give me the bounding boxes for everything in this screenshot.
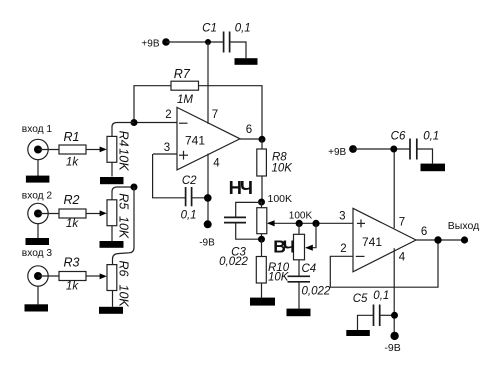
capacitor C5 (353, 290, 395, 326)
node junction pin7 column U2 (390, 146, 397, 153)
svg-text:3: 3 (164, 142, 170, 154)
potentiometer R4 (107, 123, 134, 177)
svg-text:вход 3: вход 3 (22, 248, 53, 259)
svg-text:ВЧ: ВЧ (273, 236, 294, 256)
pin 4 U1 (208, 154, 220, 225)
svg-text:6: 6 (246, 124, 252, 136)
svg-text:0,1: 0,1 (235, 22, 251, 34)
wire input2 to R2 (38, 213, 59, 215)
svg-text:0,022: 0,022 (219, 256, 248, 268)
capacitor C1 (202, 22, 251, 52)
wire input3 to R3 (38, 275, 59, 277)
wire R3 to pot R6 with arrow (86, 273, 107, 279)
svg-text:R7: R7 (174, 67, 191, 81)
node top of bass pot (258, 199, 265, 206)
wire feedback U2 pin2 loop (330, 240, 438, 287)
svg-text:6: 6 (421, 226, 427, 238)
wire C1 to ground (230, 42, 246, 58)
svg-text:7: 7 (399, 216, 405, 228)
connector input 3 (28, 266, 48, 286)
svg-text:7: 7 (212, 109, 218, 121)
svg-text:100K: 100K (268, 193, 293, 205)
svg-text:+9В: +9В (328, 147, 346, 158)
op-amp U2 (353, 208, 416, 271)
svg-text:R3: R3 (64, 255, 80, 269)
svg-text:10K: 10K (272, 163, 294, 175)
pin 3 U1 (153, 142, 177, 154)
node bus junction pin2 (131, 119, 138, 126)
svg-text:НЧ: НЧ (229, 177, 252, 198)
ground (input 1) (26, 176, 50, 183)
wire C6 to ground (417, 149, 433, 164)
wiper bass pot with arrow (267, 220, 353, 226)
ground (R10) (250, 298, 275, 306)
node C5 junction (391, 312, 398, 319)
ground (R5) (100, 241, 124, 248)
wire R2 to pot R5 with arrow (86, 210, 107, 216)
svg-text:0,022: 0,022 (302, 286, 331, 298)
svg-text:741: 741 (362, 235, 382, 249)
wire input3 to ground (37, 286, 39, 305)
node C2 junction (204, 194, 212, 202)
capacitor C4 (288, 260, 331, 309)
connector input 2 (28, 203, 48, 223)
node treble wiper column (312, 220, 319, 227)
svg-text:0,1: 0,1 (373, 290, 389, 302)
node output terminal (448, 220, 479, 244)
resistor R10 (256, 239, 289, 297)
capacitor C6 (391, 130, 440, 159)
svg-text:741: 741 (185, 134, 205, 148)
node junction pin7 column U1 (205, 39, 211, 45)
svg-text:Выход: Выход (448, 220, 479, 232)
svg-text:C6: C6 (391, 130, 406, 142)
resistor R8 (257, 139, 293, 202)
svg-text:R6: R6 (117, 261, 131, 277)
wire input1 to R1 (38, 149, 59, 151)
node output U1 (259, 136, 266, 143)
svg-text:0,1: 0,1 (423, 130, 439, 142)
ground (C6) (421, 164, 446, 172)
node -9V terminal U2 (384, 332, 400, 355)
potentiometer treble 100K (294, 223, 305, 259)
ground (input 3) (25, 304, 49, 311)
resistor R7 (171, 67, 199, 106)
resistor R2 (59, 193, 86, 230)
ground (input 2) (26, 238, 50, 245)
ground (R4) (100, 177, 124, 184)
resistor R1 (59, 130, 86, 169)
ground (C1) (235, 58, 258, 65)
node output junction U2 (434, 236, 441, 243)
wire +9V to C6 (353, 148, 410, 150)
svg-text:R8: R8 (272, 151, 287, 163)
svg-text:100K: 100K (289, 211, 313, 222)
wire +9V rail to C1 (166, 41, 223, 43)
svg-text:10K: 10K (268, 272, 290, 284)
node +9V terminal (right supply) (328, 145, 357, 158)
wire input2 to ground (37, 223, 39, 239)
svg-text:вход 2: вход 2 (22, 191, 53, 202)
svg-text:C5: C5 (353, 293, 368, 305)
svg-text:1k: 1k (66, 156, 79, 168)
node -9V terminal U1 (199, 220, 215, 248)
svg-text:R2: R2 (64, 193, 80, 207)
pin 2 U1 (134, 109, 177, 123)
svg-text:10K: 10K (117, 216, 131, 239)
pin 4 U2 (394, 248, 405, 336)
capacitor C2 (181, 175, 198, 221)
pin 7 U2 (394, 149, 405, 228)
node +9V terminal (left supply) (141, 38, 169, 49)
wire bus to R6 (113, 187, 135, 265)
wire R7 right leg to output node (199, 86, 263, 139)
connector input 1 (28, 139, 48, 159)
ground (R6) (99, 307, 123, 314)
wiper treble pot with arrow (305, 223, 316, 250)
resistor R3 (59, 255, 86, 292)
node bottom of bass pot (258, 236, 265, 243)
pin 6 U2 output wire (416, 226, 465, 240)
ground (C5) (346, 330, 370, 336)
svg-text:0,1: 0,1 (181, 209, 197, 221)
svg-text:-9В: -9В (384, 342, 400, 354)
svg-text:10K: 10K (117, 148, 131, 171)
node treble pot top (296, 220, 303, 227)
capacitor C3 across bass pot (219, 202, 261, 268)
svg-text:R4: R4 (117, 131, 131, 147)
svg-text:1k: 1k (66, 281, 79, 293)
svg-text:C2: C2 (182, 175, 197, 187)
wire C5 to ground (358, 315, 374, 330)
svg-text:2: 2 (340, 243, 346, 255)
svg-text:вход 1: вход 1 (22, 124, 53, 135)
svg-text:-9В: -9В (199, 238, 215, 249)
svg-text:3: 3 (339, 211, 345, 223)
op-amp U1 (177, 107, 240, 169)
svg-text:R5: R5 (117, 193, 131, 209)
pin 6 U1 output wire (240, 124, 262, 139)
pin 7 U1 (208, 42, 218, 124)
wire input1 to ground (37, 159, 39, 176)
potentiometer bass 100K (257, 202, 267, 239)
svg-text:1k: 1k (66, 218, 79, 230)
svg-text:4: 4 (399, 251, 406, 263)
wire pin3 to C2 (153, 154, 186, 198)
svg-text:4: 4 (213, 157, 220, 169)
potentiometer R6 (107, 261, 131, 308)
potentiometer R5 (107, 187, 134, 242)
svg-text:+9В: +9В (141, 39, 159, 50)
svg-text:C4: C4 (302, 263, 317, 275)
svg-text:2: 2 (165, 109, 171, 121)
node bus junction R5 (131, 184, 138, 191)
svg-text:R1: R1 (64, 130, 80, 144)
wire C2 to -9V column (192, 197, 208, 199)
svg-text:10K: 10K (117, 285, 131, 308)
svg-text:1M: 1M (177, 94, 193, 106)
wire R1 to pot R4 with arrow (86, 147, 107, 153)
svg-text:C1: C1 (202, 22, 217, 34)
wire R7 left leg from bus (134, 86, 171, 123)
ground (C4) (287, 309, 311, 317)
